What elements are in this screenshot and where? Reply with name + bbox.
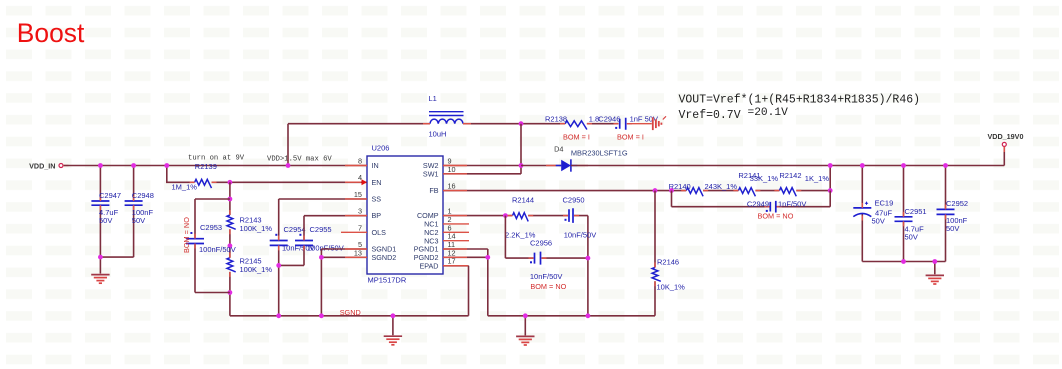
svg-text:50V: 50V — [872, 217, 885, 226]
svg-text:50V: 50V — [905, 232, 918, 241]
wire C2946 to ground — [627, 123, 652, 125]
junction SGND rail C2954 — [276, 313, 281, 318]
junction EN node — [228, 180, 233, 185]
junction C2954 C2955 join — [276, 263, 281, 268]
pin stub NC3 — [443, 232, 469, 241]
svg-text:4: 4 — [358, 173, 362, 182]
wire top rail — [288, 124, 618, 166]
svg-text:VDD>1.5V max 6V: VDD>1.5V max 6V — [267, 155, 332, 163]
pin stub PGND1 — [443, 240, 467, 249]
wire C2947 branch — [99, 166, 101, 258]
pin stub COMP — [443, 207, 467, 216]
wire SS branch — [279, 199, 367, 316]
ground PGND — [516, 336, 534, 345]
pin name NC2 — [424, 228, 438, 237]
svg-text:U206: U206 — [372, 144, 390, 153]
note turn on at 9V — [188, 154, 245, 162]
svg-text:=20.1V: =20.1V — [748, 107, 789, 119]
resistor R2140 — [669, 182, 738, 197]
resistor R2145 — [227, 253, 272, 277]
pin name IN — [372, 161, 379, 170]
svg-text:17: 17 — [448, 257, 456, 266]
wire EN divider vertical — [229, 182, 231, 315]
wire R2146 branch — [654, 191, 656, 316]
svg-text:BOM = NO: BOM = NO — [758, 212, 794, 221]
svg-text:SW1: SW1 — [423, 169, 439, 178]
svg-text:C2956: C2956 — [530, 239, 552, 248]
svg-text:BOM = NO: BOM = NO — [530, 282, 566, 291]
wire FB net — [443, 166, 830, 191]
svg-text:C2954: C2954 — [284, 225, 306, 234]
pin name PGND2 — [414, 253, 439, 262]
ground input filter — [91, 275, 109, 284]
port VDD_IN — [29, 161, 68, 170]
wire C2956 loop — [505, 216, 588, 316]
op-amp U206 MP1517DR body — [367, 144, 443, 285]
svg-text:MP1517DR: MP1517DR — [368, 276, 407, 285]
pin stub SGND2 — [345, 248, 367, 257]
capacitor C2950 — [563, 195, 597, 239]
junction rail R2139 — [164, 163, 169, 168]
junction C2956 right — [586, 256, 591, 261]
svg-text:C2947: C2947 — [99, 191, 121, 200]
svg-text:50V: 50V — [946, 224, 959, 233]
junction L1 to SW — [519, 121, 524, 126]
svg-text:13: 13 — [354, 248, 362, 257]
svg-text:D4: D4 — [554, 144, 563, 153]
junction SGND rail SGND pins — [319, 313, 324, 318]
pin name EN — [372, 178, 382, 187]
svg-text:C2952: C2952 — [946, 199, 968, 208]
wire C2952 branch — [862, 166, 945, 275]
junction divider right — [828, 188, 833, 193]
svg-text:R2144: R2144 — [512, 195, 534, 204]
capacitor C2955 — [295, 225, 344, 253]
svg-text:100nF/50V: 100nF/50V — [199, 245, 236, 254]
ground output — [926, 275, 944, 284]
svg-text:10nF/50V: 10nF/50V — [564, 231, 597, 240]
resistor R2143 — [227, 210, 272, 234]
junction COMP left — [503, 213, 508, 218]
pin name SGND1 — [372, 245, 397, 254]
svg-text:C2953: C2953 — [200, 223, 222, 232]
pin name SS — [372, 195, 382, 204]
wire EC19 branch — [861, 166, 863, 262]
svg-text:10uH: 10uH — [429, 130, 447, 139]
capacitor C2947 — [91, 191, 121, 225]
pin name OLS — [372, 228, 387, 237]
svg-text:Vref=0.7V: Vref=0.7V — [679, 109, 741, 122]
svg-text:16: 16 — [448, 182, 456, 191]
svg-text:EC19: EC19 — [875, 198, 894, 207]
svg-text:L1: L1 — [429, 94, 437, 103]
pin name SGND2 — [372, 253, 397, 262]
svg-text:R2138: R2138 — [545, 114, 567, 123]
title Boost — [17, 18, 85, 48]
svg-text:VDD_IN: VDD_IN — [29, 161, 55, 170]
svg-text:1nF 50V: 1nF 50V — [630, 114, 658, 123]
note BOM = NO C2953 — [182, 217, 191, 253]
junction SGND2 tap — [319, 255, 324, 260]
pin stub SGND1 — [345, 240, 367, 249]
pin name COMP — [417, 211, 439, 220]
wire PGND rail — [488, 316, 655, 336]
capacitor C2956 — [529, 239, 563, 281]
capacitor C2948 — [125, 191, 154, 225]
note VOUT formula — [679, 94, 921, 107]
ground SGND — [384, 336, 402, 345]
svg-text:BOM = I: BOM = I — [563, 133, 590, 142]
junction input caps bottom — [98, 255, 103, 260]
svg-text:50V: 50V — [132, 216, 145, 225]
port VDD_19V0 — [988, 132, 1024, 152]
label SGND — [340, 308, 361, 317]
svg-text:7: 7 — [358, 223, 362, 232]
svg-text:IN: IN — [372, 161, 379, 170]
svg-text:VDD_19V0: VDD_19V0 — [988, 132, 1024, 141]
note BOM = I R2138 — [563, 133, 590, 142]
svg-text:1K_1%: 1K_1% — [805, 174, 830, 183]
wire output rail — [571, 146, 1004, 165]
svg-text:OLS: OLS — [372, 228, 387, 237]
resistor R2138 — [545, 114, 599, 129]
wire C2949 loop — [672, 191, 831, 207]
svg-text:C2951: C2951 — [905, 207, 927, 216]
svg-text:100nF/50V: 100nF/50V — [307, 244, 344, 253]
pin stub SS — [345, 190, 367, 199]
pin stub EPAD — [443, 257, 468, 266]
junction output rail C2951 — [901, 163, 906, 168]
pin name BP — [372, 211, 382, 220]
ground snubber right — [653, 116, 666, 130]
wire SGND rail — [230, 266, 469, 335]
capacitor C2949 — [747, 199, 806, 212]
svg-text:SGND: SGND — [340, 308, 361, 317]
pin name EPAD — [419, 261, 438, 270]
junction output bottom ground — [932, 259, 937, 264]
resistor R2146 — [652, 258, 685, 292]
svg-text:10K_1%: 10K_1% — [657, 283, 686, 292]
note Vref — [679, 109, 741, 122]
svg-text:C2950: C2950 — [563, 195, 585, 204]
svg-text:50V: 50V — [99, 216, 112, 225]
pin stub OLS — [341, 223, 367, 232]
junction input rail C2948 — [131, 163, 136, 168]
pin stub FB — [443, 182, 467, 191]
pin stub SW2 — [443, 157, 467, 166]
junction PGND rail ground — [523, 313, 528, 318]
svg-text:10nF/50V: 10nF/50V — [530, 272, 563, 281]
svg-text:BOM = I: BOM = I — [617, 133, 644, 142]
svg-text:SS: SS — [372, 195, 382, 204]
junction output rail divider — [828, 163, 833, 168]
junction SW2 node — [519, 163, 524, 168]
note 20.1V — [748, 107, 789, 119]
wire C2948 branch — [100, 166, 133, 274]
resistor R2139 — [172, 162, 217, 192]
pin stub IN — [345, 157, 367, 166]
svg-text:SGND2: SGND2 — [372, 253, 397, 262]
svg-text:BP: BP — [372, 211, 382, 220]
capacitor C2954 — [270, 225, 315, 253]
svg-text:33K_1%: 33K_1% — [750, 174, 779, 183]
svg-text:R2139: R2139 — [195, 162, 217, 171]
junction FB C2949 tap — [669, 188, 674, 193]
svg-text:Boost: Boost — [17, 18, 85, 48]
svg-text:C2946: C2946 — [598, 114, 620, 123]
svg-text:C2949: C2949 — [747, 199, 769, 208]
svg-text:R2146: R2146 — [657, 258, 679, 267]
svg-text:15: 15 — [354, 190, 362, 199]
svg-text:BOM = NO: BOM = NO — [182, 217, 191, 253]
svg-text:FB: FB — [429, 186, 438, 195]
pin stub BP — [345, 207, 367, 216]
pin name FB — [429, 186, 438, 195]
svg-text:1M_1%: 1M_1% — [172, 183, 198, 192]
junction FB R2146 — [653, 188, 658, 193]
diode D4 — [546, 144, 628, 171]
junction divider mid — [228, 243, 233, 248]
pin stub NC2 — [443, 223, 469, 232]
svg-text:R2142: R2142 — [779, 171, 801, 180]
svg-text:100K_1%: 100K_1% — [240, 265, 273, 274]
pin name SW2 — [423, 161, 439, 170]
svg-text:EN: EN — [372, 178, 382, 187]
wire SGND1 SGND2 branch — [321, 249, 367, 316]
pin stub PGND2 — [443, 248, 467, 257]
wire COMP net — [443, 216, 588, 259]
pin stub SW1 — [443, 165, 467, 174]
junction output rail C2952 — [943, 163, 948, 168]
note BOM = NO C2956 — [530, 282, 566, 291]
junction input rail C2947 — [98, 163, 103, 168]
capacitor C2952 — [937, 199, 969, 233]
wire VDD_IN rail — [64, 165, 367, 167]
svg-text:C2948: C2948 — [132, 191, 154, 200]
junction R2145 bottom — [228, 290, 233, 295]
junction output rail EC19 — [860, 163, 865, 168]
svg-text:VOUT=Vref*(1+(R45+R1834+R1835): VOUT=Vref*(1+(R45+R1834+R1835)/R46) — [679, 94, 921, 107]
svg-text:100K_1%: 100K_1% — [240, 224, 273, 233]
wire C2951 branch — [903, 166, 905, 262]
junction rail to top — [286, 163, 291, 168]
wire D4 anode — [521, 165, 561, 167]
wire BP branch — [279, 216, 367, 266]
svg-text:1nF/50V: 1nF/50V — [778, 199, 806, 208]
pin name NC3 — [424, 236, 438, 245]
junction PGND rail C2956 — [586, 313, 591, 318]
capacitor C2953 — [186, 223, 236, 254]
junction SGND rail ground — [391, 313, 396, 318]
pin name SW1 — [423, 169, 439, 178]
inductor L1 — [423, 94, 471, 138]
wire PGND pins — [443, 249, 488, 316]
resistor R2142 — [774, 171, 829, 196]
resistor R2144 — [505, 195, 536, 239]
note VDD>1.5V max 6V — [267, 155, 332, 163]
junction output bottom C2951 — [901, 259, 906, 264]
svg-text:3: 3 — [358, 207, 362, 216]
pin name PGND1 — [414, 245, 439, 254]
svg-text:MBR230LSFT1G: MBR230LSFT1G — [571, 149, 628, 158]
pin stub NC1 — [443, 215, 469, 224]
svg-text:10: 10 — [448, 165, 456, 174]
svg-text:C2955: C2955 — [310, 225, 332, 234]
note BOM = NO C2949 — [758, 212, 794, 221]
pin name NC1 — [424, 220, 438, 229]
note BOM = I C2946 — [617, 133, 644, 142]
wire SW1 SW2 — [443, 124, 521, 174]
wire C2953 branch — [195, 199, 230, 293]
junction PGND2 tap — [485, 255, 490, 260]
capacitor EC19 — [853, 198, 893, 225]
capacitor C2951 — [895, 207, 927, 241]
capacitor C2946 — [598, 114, 658, 129]
svg-text:243K_1%: 243K_1% — [705, 182, 738, 191]
svg-text:EPAD: EPAD — [419, 261, 438, 270]
pin stub EN — [345, 173, 367, 185]
wire EN branch — [167, 166, 367, 183]
resistor R2141 — [733, 171, 778, 196]
svg-text:8: 8 — [358, 157, 362, 166]
junction SS tap — [228, 197, 233, 202]
